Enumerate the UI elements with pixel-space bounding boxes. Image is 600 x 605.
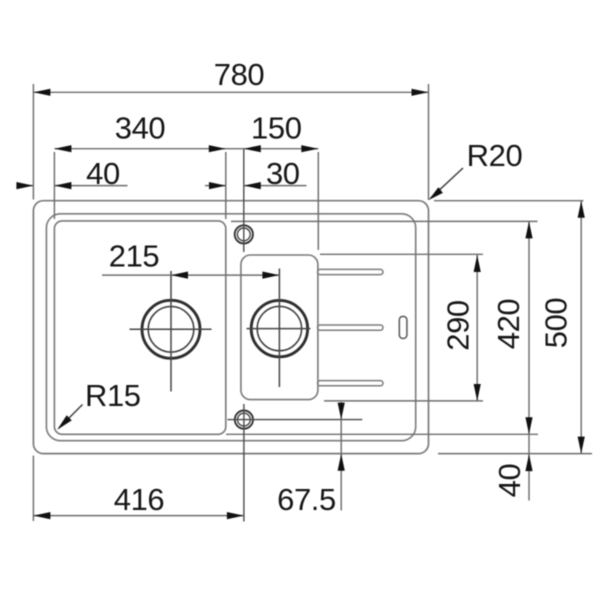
svg-text:67.5: 67.5 [277, 482, 336, 517]
top tap hole inner [237, 228, 250, 241]
drainer groove 2 [318, 325, 384, 330]
arrow 780 left [33, 89, 50, 96]
left bowl drain inner circle [148, 307, 194, 353]
arrow 420 bottom / 40 top [525, 417, 532, 434]
svg-text:R20: R20 [467, 138, 523, 173]
bottom tap hole outer [235, 411, 253, 429]
drainer groove 1 [318, 269, 384, 274]
dim 420/40 vertical line [528, 221, 530, 500]
arrow 290 top [474, 255, 481, 272]
arrow 290 bottom [474, 384, 481, 401]
arrow 67.5 bottom (up pointing) [338, 454, 345, 471]
right bowl drain outer circle [251, 300, 307, 356]
arrow 500 top [578, 201, 585, 218]
arrow 30 left outside [209, 182, 226, 189]
arrow 30 right outside [244, 182, 261, 189]
svg-text:215: 215 [109, 239, 160, 274]
arrow 40 left outside [16, 182, 33, 189]
arrow 780 right [412, 89, 429, 96]
svg-text:780: 780 [214, 57, 265, 92]
arrow 340 right [209, 145, 226, 152]
left drain crosshair [130, 271, 212, 392]
left bowl drain outer circle [142, 300, 200, 358]
dim 780 line [33, 84, 428, 200]
arrow 215 right [262, 272, 279, 279]
dim 40 line segments [18, 185, 128, 187]
arrow 416 right [227, 512, 244, 519]
svg-text:40: 40 [492, 464, 527, 498]
arrowheads [16, 89, 584, 520]
R15 leader line [59, 405, 83, 429]
arrow 416 left [33, 512, 50, 519]
right bowl drain inner circle [257, 306, 301, 350]
svg-text:150: 150 [251, 110, 302, 145]
dim 500 line and extensions [434, 201, 592, 454]
svg-text:420: 420 [491, 299, 526, 350]
arrow 40 bottom outside [525, 454, 532, 471]
bottom tap hole inner [238, 413, 251, 426]
svg-text:416: 416 [114, 482, 165, 517]
svg-text:R15: R15 [85, 378, 141, 413]
right drain crosshair [247, 269, 311, 388]
overflow slot [399, 316, 407, 338]
svg-text:290: 290 [441, 300, 476, 351]
svg-text:30: 30 [266, 156, 300, 191]
arrow 150 left [244, 145, 261, 152]
sink outer outline [33, 201, 428, 454]
dim 340/150 shared line [54, 149, 318, 250]
arrow 340 left [54, 145, 71, 152]
drainer groove 3 [318, 381, 384, 386]
dim 215 line [102, 274, 279, 276]
dim 290 line and extensions [320, 254, 483, 401]
dim 67.5 vertical line [340, 402, 342, 511]
top hole centerline [243, 149, 245, 252]
arrow 40 right outside [54, 182, 71, 189]
arrow 420 top [525, 221, 532, 238]
arrow 150 right [301, 145, 318, 152]
svg-text:40: 40 [86, 156, 120, 191]
arrow R20 [429, 187, 443, 200]
dim 30 line segments [205, 185, 307, 187]
drainer top edge line [231, 220, 538, 222]
R20 leader line [431, 168, 463, 198]
svg-text:500: 500 [538, 298, 573, 349]
svg-text:340: 340 [115, 110, 166, 145]
sink rim inner outline [46, 214, 415, 441]
top tap hole outer [235, 225, 253, 243]
left bowl [54, 221, 225, 434]
right small bowl [241, 255, 318, 400]
arrow 67.5 top (down pointing) [338, 403, 345, 420]
arrow 215 left [171, 272, 188, 279]
bottom hole centerlines [228, 404, 363, 522]
arrow R15 [57, 415, 72, 430]
dimension texts [85, 57, 573, 517]
dim 416 line and left extension [33, 456, 244, 521]
bowls bottom extension line [226, 433, 538, 435]
arrow 500 bottom [578, 437, 585, 454]
